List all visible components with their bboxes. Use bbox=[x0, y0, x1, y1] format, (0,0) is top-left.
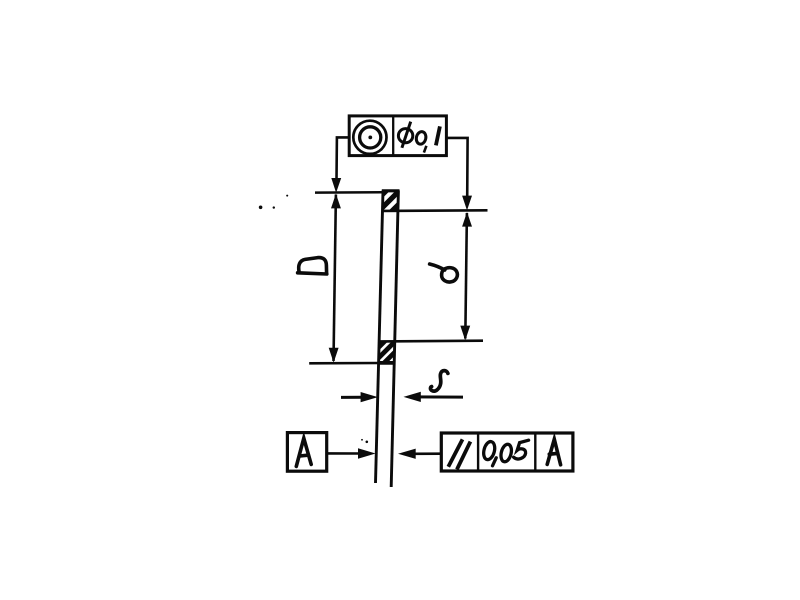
datum A box bbox=[287, 433, 326, 472]
left leader arrowhead bbox=[331, 178, 341, 193]
washer left face line bbox=[376, 191, 384, 484]
stray speck bbox=[259, 206, 263, 210]
parallelism leader arrowhead bbox=[398, 449, 416, 459]
datum leader bbox=[327, 452, 361, 455]
stray speck bbox=[273, 206, 275, 208]
top extension line bbox=[315, 191, 385, 194]
d bottom arrowhead bbox=[460, 326, 470, 341]
frame datum letter A bbox=[547, 439, 560, 465]
label d bbox=[430, 264, 458, 282]
washer top face bbox=[382, 189, 400, 192]
d top arrowhead bbox=[462, 212, 472, 227]
washer right face line bbox=[391, 191, 398, 488]
tolerance text 0,1 with phi bbox=[398, 129, 412, 143]
s dimension right line bbox=[410, 395, 463, 398]
stray speck bbox=[286, 195, 288, 197]
D top arrowhead bbox=[331, 194, 341, 209]
dimension d line bbox=[465, 213, 467, 339]
D bottom arrowhead bbox=[329, 348, 339, 363]
dimension D line bbox=[334, 195, 336, 362]
concentricity symbol bbox=[353, 121, 386, 154]
s dimension left line bbox=[341, 396, 364, 399]
tolerance 0,05 bbox=[482, 440, 529, 466]
d bottom extension line bbox=[380, 339, 483, 342]
s left arrowhead bbox=[361, 392, 378, 402]
concentricity frame bbox=[349, 116, 446, 156]
top hatch bbox=[364, 183, 420, 213]
label D bbox=[298, 258, 327, 274]
label s bbox=[430, 371, 447, 391]
datum leader arrowhead bbox=[358, 448, 376, 458]
bottom hatch bbox=[356, 335, 423, 370]
bottom extension line bbox=[309, 362, 380, 365]
stray speck bbox=[366, 441, 369, 444]
stray speck bbox=[361, 439, 363, 441]
s right arrowhead bbox=[404, 392, 421, 402]
right leader from frame bbox=[446, 138, 467, 198]
hole top line and d top extension line bbox=[382, 209, 487, 212]
parallelism frame bbox=[441, 433, 573, 471]
right leader arrowhead bbox=[462, 196, 472, 211]
parallelism symbol bbox=[448, 439, 470, 469]
washer bottom face bbox=[379, 361, 396, 365]
datum letter A bbox=[296, 438, 311, 466]
left leader from frame bbox=[337, 137, 350, 180]
parallelism leader bbox=[413, 452, 442, 455]
